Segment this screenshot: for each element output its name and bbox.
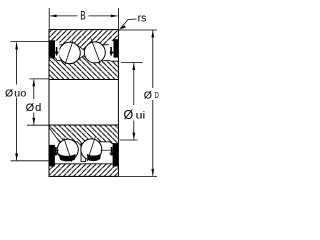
ball top-right: [84, 42, 105, 63]
cage crescent bottom-left: [59, 154, 76, 162]
bore edge left: [48, 80, 50, 126]
inner ring bottom (hatched): [49, 125, 118, 149]
svg-text:uo: uo: [14, 88, 27, 99]
phiD extension lines: [119, 29, 157, 31]
B arrow left: [50, 15, 57, 18]
phid extension lines: [30, 78, 50, 80]
B dimension line: [50, 15, 78, 17]
cage pocket column bottom-center: [81, 143, 86, 161]
bore edge right: [117, 80, 119, 126]
seal top-left: [49, 40, 55, 57]
phiuo dimension line: [16, 43, 18, 85]
svg-text:rs: rs: [138, 12, 147, 24]
svg-text:d: d: [35, 102, 41, 114]
inner ring top (hatched): [49, 56, 118, 80]
svg-text:B: B: [80, 9, 85, 23]
phiuo extension lines: [11, 41, 50, 43]
top section outline: [49, 30, 118, 80]
ball top-left: [59, 42, 80, 63]
phiui extension lines: [121, 62, 143, 64]
ball bottom-left: [57, 139, 78, 160]
contact line bottom-left ball: [64, 138, 72, 162]
seal bottom-right: [113, 144, 119, 167]
seal lip background top-right: [109, 41, 114, 58]
seal lip background top-left: [55, 41, 59, 58]
rs leader: [121, 19, 137, 28]
phiD dimension line: [152, 31, 154, 89]
cage crescent bottom-right: [87, 154, 101, 162]
svg-text:Ø: Ø: [26, 102, 35, 114]
phiui dimension line: [133, 63, 135, 105]
ball bottom-right: [81, 139, 102, 160]
contact line bottom-right ball: [87, 137, 95, 161]
B arrow right: [111, 15, 118, 18]
contact line top-left ball: [65, 41, 73, 65]
svg-text:ui: ui: [136, 111, 146, 122]
B dimension extension lines: [48, 8, 50, 30]
svg-text:Ø: Ø: [144, 90, 152, 102]
svg-text:Ø: Ø: [124, 108, 134, 122]
svg-text:Ø: Ø: [5, 87, 13, 99]
svg-text:D: D: [155, 91, 159, 100]
seal top-right: [114, 39, 119, 57]
seal lip line bottom-left: [55, 150, 60, 152]
contact line top-right ball: [91, 39, 100, 64]
phid dimension line: [33, 79, 35, 99]
outer ring bottom (hatched): [49, 164, 118, 177]
outer ring top (hatched): [49, 30, 118, 50]
seal bottom-left: [49, 145, 55, 167]
bottom section outline: [49, 125, 118, 176]
seal lip line bottom-right: [101, 149, 114, 151]
